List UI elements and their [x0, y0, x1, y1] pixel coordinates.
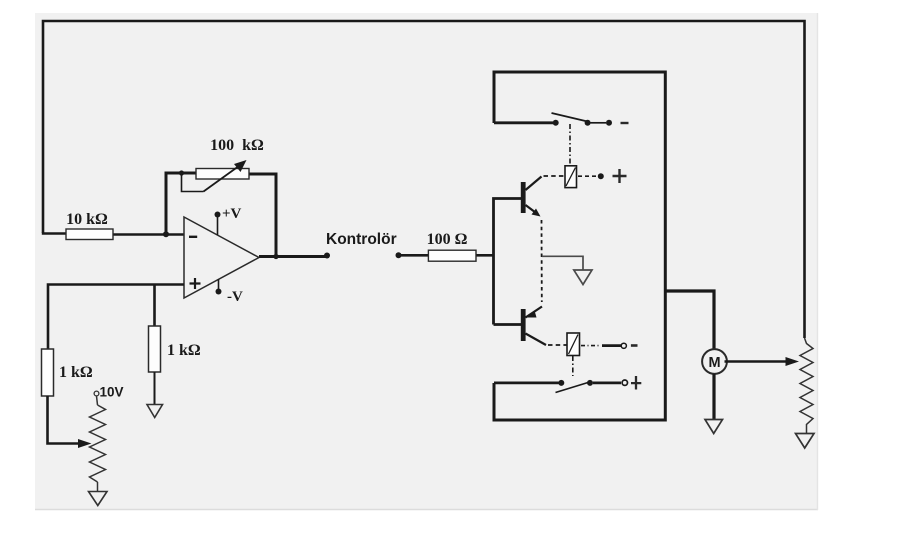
- wire to wiper arrow: [48, 396, 81, 444]
- svg-text:10 kΩ: 10 kΩ: [66, 211, 108, 228]
- mechanical coupling arrow motor to P2: [725, 360, 789, 363]
- wire dashed collector to relay K2: [548, 344, 567, 346]
- node K1 plus terminal: [598, 173, 604, 179]
- ground for P1: [89, 492, 108, 506]
- wire 10k input: [42, 234, 184, 235]
- svg-text:-V: -V: [227, 289, 243, 305]
- svg-text:1 kΩ: 1 kΩ: [59, 364, 93, 381]
- wire dashed collector to relay K1: [544, 175, 566, 177]
- ground P2: [796, 434, 815, 449]
- wire motor branch: [665, 291, 714, 350]
- relay coil K1: [565, 166, 577, 188]
- wire motor to ground: [712, 374, 715, 419]
- potentiometer P2 feedback: [800, 338, 813, 433]
- label plus S2: [631, 376, 641, 390]
- resistor R4 100 Ohm: [428, 250, 476, 261]
- node controller input: [396, 252, 402, 258]
- wire to switch S1: [494, 121, 553, 124]
- ground for R3: [147, 405, 163, 418]
- svg-text:100 kΩ: 100 kΩ: [210, 137, 264, 154]
- resistor R1 10 kOhm: [66, 229, 113, 240]
- ground emitter: [574, 270, 592, 285]
- wire outer feedback loop: [43, 21, 805, 338]
- node feedback/output junction: [273, 254, 278, 259]
- wire dash-dot K2 to minus node: [581, 345, 600, 347]
- wire relay frame: [494, 72, 665, 420]
- linkage K1-S1 dash-dot: [569, 124, 571, 165]
- svg-text:10V: 10V: [100, 385, 124, 400]
- linkage K2-S2 dash-dot: [572, 356, 574, 376]
- transistor Q1 NPN: [521, 177, 542, 217]
- -V supply terminal: [216, 279, 243, 305]
- +V supply terminal: [215, 206, 242, 235]
- node wiper junction: [179, 170, 184, 175]
- wire solid to minus terminal: [602, 344, 621, 347]
- wire to switch S2: [494, 381, 559, 384]
- wire op-amp output: [259, 255, 327, 258]
- transistor Q2 PNP: [521, 307, 546, 346]
- motor M1: [702, 349, 727, 374]
- svg-text:1 kΩ: 1 kΩ: [167, 342, 201, 359]
- svg-text:100 Ω: 100 Ω: [427, 231, 468, 248]
- switch S1: [552, 113, 613, 126]
- wire to ground: [154, 372, 156, 404]
- label minus S1: [621, 122, 629, 124]
- relay coil K2: [567, 333, 580, 356]
- label plus: [613, 169, 627, 183]
- wire plus input: [48, 285, 184, 350]
- node inverting input junction: [163, 231, 169, 237]
- potentiometer P1 10V: [90, 391, 106, 491]
- ground motor: [705, 420, 723, 434]
- svg-text:+V: +V: [222, 206, 242, 222]
- wire dashed K1 to + node: [578, 175, 596, 177]
- wire 1k branch: [153, 285, 156, 327]
- resistor R3 1 kOhm: [149, 326, 161, 372]
- potentiometer 100 kOhm feedback rheostat: [182, 160, 250, 192]
- wire feedback branch: [166, 173, 276, 257]
- wire to 100 Ohm: [399, 254, 494, 257]
- resistor R2 1 kOhm: [42, 349, 54, 396]
- wire base bus: [494, 199, 522, 325]
- svg-text:Kontrolör: Kontrolör: [326, 231, 397, 248]
- wire dashed emitter link Q1-Q2: [541, 220, 543, 302]
- switch S2: [556, 380, 628, 393]
- node K2 minus terminal open: [621, 343, 626, 348]
- node output terminal: [324, 253, 330, 259]
- wire emitter to ground: [542, 256, 583, 269]
- svg-text:M: M: [708, 355, 720, 371]
- op-amp U1: [184, 217, 259, 298]
- label minus K2: [631, 344, 638, 347]
